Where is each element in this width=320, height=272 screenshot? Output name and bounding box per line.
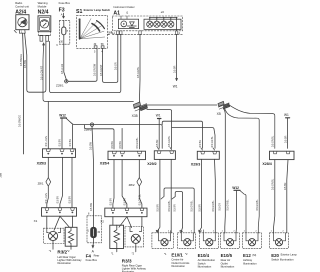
svg-text:E10/5: E10/5 xyxy=(221,253,233,258)
ground W1 right xyxy=(286,117,290,119)
svg-text:2B8: 2B8 xyxy=(0,172,3,177)
svg-text:Control unit: Control unit xyxy=(15,4,29,8)
instrument cluster bulb group e6 xyxy=(144,17,181,31)
wire X5 to X28/4 pin1 xyxy=(229,105,275,149)
svg-text:R3/3: R3/3 xyxy=(122,259,132,264)
svg-text:e6: e6 xyxy=(161,10,165,14)
feeder to X35/4 pins xyxy=(85,125,115,149)
svg-text:0.5 GR/BL: 0.5 GR/BL xyxy=(212,200,215,212)
svg-text:*2: *2 xyxy=(185,252,188,256)
svg-text:0.5 LI GN/RT: 0.5 LI GN/RT xyxy=(41,65,44,80)
svg-text:Fuse Box: Fuse Box xyxy=(59,1,71,5)
ground W1 arrow xyxy=(176,78,178,81)
svg-text:E20: E20 xyxy=(271,253,279,258)
wire X29/3 pin2 to E10/4 right xyxy=(214,159,217,233)
svg-text:2: 2 xyxy=(168,231,170,233)
wire X29/2 pin2 down to E10/1a right xyxy=(170,159,172,232)
svg-text:0.5 BR: 0.5 BR xyxy=(156,139,159,147)
wire X35 to X5 xyxy=(147,104,217,106)
arrow into E10/1b xyxy=(180,230,183,233)
connector R3/3 plug xyxy=(105,208,147,217)
arrow into N2/4 xyxy=(43,43,45,45)
svg-text:Exterior Lamp Switch: Exterior Lamp Switch xyxy=(84,8,111,12)
svg-text:Illumination: Illumination xyxy=(57,261,71,265)
wire X35/3 pin3 down xyxy=(71,157,73,207)
svg-text:0.5 BR: 0.5 BR xyxy=(69,196,72,204)
svg-text:A1: A1 xyxy=(113,10,120,16)
svg-text:8: 8 xyxy=(88,213,90,216)
svg-text:Z8/1: Z8/1 xyxy=(38,181,44,185)
connector X29/2 xyxy=(154,147,175,159)
wire colour labels rotated xyxy=(18,54,287,212)
ground W12 left xyxy=(61,118,72,149)
svg-text:1: 1 xyxy=(222,231,224,233)
svg-text:W1: W1 xyxy=(284,113,289,117)
svg-text:2: 2 xyxy=(282,231,284,233)
svg-text:0.5 GR/BL: 0.5 GR/BL xyxy=(190,200,193,212)
svg-text:X5: X5 xyxy=(217,112,221,116)
svg-text:2: 2 xyxy=(255,231,257,233)
svg-text:0.5 BR: 0.5 BR xyxy=(59,139,62,147)
ground W12 right xyxy=(234,190,246,233)
connector X35 xyxy=(133,102,147,111)
svg-text:0.5 BR: 0.5 BR xyxy=(284,135,287,143)
svg-text:0.5 BR: 0.5 BR xyxy=(111,141,114,149)
svg-text:2: 2 xyxy=(233,231,235,233)
wire A1 e6 ground to W1 xyxy=(176,34,178,78)
svg-text:0.5 SW: 0.5 SW xyxy=(90,202,93,211)
cigar lighter R3/2 xyxy=(44,216,77,249)
label A2/4 xyxy=(15,1,29,33)
svg-text:0.5 BR: 0.5 BR xyxy=(69,139,72,147)
svg-text:*1: *1 xyxy=(164,252,167,256)
svg-text:5: 5 xyxy=(94,51,96,54)
svg-text:E12: E12 xyxy=(243,253,251,258)
svg-text:0.5 GR/BL: 0.5 GR/BL xyxy=(271,178,274,190)
svg-text:E10/1: E10/1 xyxy=(171,252,183,257)
svg-text:*1: *1 xyxy=(111,252,114,256)
svg-text:2: 2 xyxy=(179,32,181,35)
svg-text:30: 30 xyxy=(60,41,63,44)
svg-text:0.5 BR: 0.5 BR xyxy=(173,65,176,73)
A1 box corner tick xyxy=(111,32,113,35)
svg-text:1: 1 xyxy=(201,231,203,233)
svg-text:X1: X1 xyxy=(34,219,38,223)
svg-text:0.5 GR/BL: 0.5 GR/BL xyxy=(136,137,139,149)
svg-text:0.5 GR/BL: 0.5 GR/BL xyxy=(211,136,214,148)
svg-text:i1: i1 xyxy=(126,11,129,15)
svg-text:Exterior Lamp: Exterior Lamp xyxy=(281,253,298,257)
svg-text:*2: *2 xyxy=(67,249,70,253)
connector sleeve Z8/2 xyxy=(137,178,142,187)
wire Z28/2 to fuse F4 xyxy=(92,126,93,216)
svg-text:A: A xyxy=(92,250,95,254)
wire X5 to E10/5 xyxy=(223,108,225,233)
wire X28/4 pin1 to E20 xyxy=(274,160,275,233)
svg-text:0.5 BR: 0.5 BR xyxy=(124,198,127,206)
svg-text:2: 2 xyxy=(191,231,193,233)
wire X29/3 pin1 to E10/4 xyxy=(199,159,202,232)
svg-text:A: A xyxy=(61,12,63,16)
arrow into E10/1a xyxy=(156,230,159,232)
svg-text:0.5 LI GN: 0.5 LI GN xyxy=(45,136,48,147)
svg-text:0.5 BR: 0.5 BR xyxy=(110,198,113,206)
svg-text:Illumination: Illumination xyxy=(243,261,257,265)
connector X35/3 xyxy=(43,149,76,158)
svg-text:X29/3: X29/3 xyxy=(191,162,200,166)
svg-text:0.5 GR/BL: 0.5 GR/BL xyxy=(272,135,275,147)
wire A2/4 pin2 to N2/4 xyxy=(25,33,46,92)
svg-text:0.5 BR: 0.5 BR xyxy=(199,140,202,148)
svg-text:Illumination: Illumination xyxy=(198,265,212,269)
svg-text:Illumination: Illumination xyxy=(171,264,185,268)
svg-text:W1: W1 xyxy=(156,114,161,118)
svg-text:1: 1 xyxy=(271,231,273,233)
svg-text:*1: *1 xyxy=(49,249,52,253)
svg-text:0.5 GR/RT: 0.5 GR/RT xyxy=(100,64,103,76)
svg-text:S1: S1 xyxy=(76,9,82,15)
wire X35/4 pin2 to R3/3 xyxy=(122,160,127,209)
label F3 xyxy=(56,1,70,47)
svg-text:0.5 LI GN: 0.5 LI GN xyxy=(61,63,64,74)
svg-text:a: a xyxy=(67,29,69,32)
svg-text:Z8/2: Z8/2 xyxy=(129,183,135,187)
solder joint Z29/1 xyxy=(65,80,68,83)
svg-text:X2: X2 xyxy=(100,219,104,223)
svg-text:0.5 GR: 0.5 GR xyxy=(114,62,117,70)
svg-text:0.5 GR/BL: 0.5 GR/BL xyxy=(137,66,140,78)
wire X35/4 pin1 to R3/3 xyxy=(113,160,114,209)
bulb E10/5 xyxy=(221,233,240,249)
wire branch to X29/3 pin2 xyxy=(172,128,215,149)
cigar lighter R3/3 xyxy=(110,217,144,252)
svg-text:2: 2 xyxy=(213,231,215,233)
label S1 xyxy=(76,8,113,54)
svg-text:W12: W12 xyxy=(59,113,66,117)
wire X5 to E12 xyxy=(225,109,259,233)
svg-text:Instrument Cluster: Instrument Cluster xyxy=(113,5,134,9)
control unit A2/4 xyxy=(14,15,29,34)
labels bulb row xyxy=(164,252,297,269)
svg-text:0.5 BR: 0.5 BR xyxy=(174,204,177,212)
svg-text:*2: *2 xyxy=(132,252,135,256)
svg-text:0.5 GR/BL: 0.5 GR/BL xyxy=(256,199,259,211)
svg-text:0.5 BR: 0.5 BR xyxy=(284,182,287,190)
connector X5 xyxy=(218,101,230,109)
svg-text:Z29/1: Z29/1 xyxy=(56,84,64,88)
bridge wire E10/1 pair outer xyxy=(161,188,194,233)
svg-text:1: 1 xyxy=(244,231,246,233)
svg-text:E10/4: E10/4 xyxy=(198,253,210,258)
wire S1 to A1 i1 xyxy=(103,34,118,82)
label N2/4 xyxy=(38,1,49,15)
bulb E20 xyxy=(270,233,289,249)
wire drop to X35/3 pin3 xyxy=(71,125,73,149)
svg-text:0.5 BR: 0.5 BR xyxy=(57,196,60,204)
svg-text:Rear: Rear xyxy=(94,254,100,258)
wire X29/2 pin1 down to E10/1a xyxy=(157,159,160,231)
svg-text:Illumination: Illumination xyxy=(221,265,235,269)
instrument cluster lamp unit i1 xyxy=(118,16,138,29)
label R3/2 xyxy=(49,249,82,265)
wire N2/4 signal down xyxy=(43,44,133,101)
svg-text:0.5 GR/SW: 0.5 GR/SW xyxy=(93,63,96,76)
connector X35/4 xyxy=(108,151,146,159)
connector R3/2 plug xyxy=(42,208,77,217)
bulb E10/1 b xyxy=(178,233,196,249)
svg-text:0.5 GR/BL: 0.5 GR/BL xyxy=(226,199,229,211)
wire branch to X35/3 pin1 xyxy=(47,102,49,149)
svg-text:0.5 LI GN: 0.5 LI GN xyxy=(45,193,48,204)
wire X35/4 pin3 to R3/3 xyxy=(139,160,142,209)
svg-text:W1: W1 xyxy=(173,84,178,88)
wire X35/3 pin1 to R3/2 xyxy=(47,157,49,207)
svg-text:X35: X35 xyxy=(132,114,138,118)
svg-text:Fuse Box: Fuse Box xyxy=(86,258,98,262)
svg-text:X35/3: X35/3 xyxy=(37,161,46,165)
svg-text:0.5 GR: 0.5 GR xyxy=(218,203,221,211)
svg-text:Switch Illumination: Switch Illumination xyxy=(271,257,294,261)
connector sleeve Z8/1 xyxy=(46,178,51,187)
svg-text:0.5 SW/GE: 0.5 SW/GE xyxy=(18,115,21,127)
svg-text:X28/4: X28/4 xyxy=(262,162,271,166)
bridge X29/2 to X29/3 xyxy=(162,121,202,148)
wire X35/3 pin2 down xyxy=(60,157,63,207)
wire A1 i1 pin2 to N2/4 bus xyxy=(50,34,121,92)
svg-text:0.5 GR/BL: 0.5 GR/BL xyxy=(139,194,142,206)
connector X29/3 xyxy=(197,148,219,159)
wire A2/4 pin1 dead end xyxy=(22,33,25,154)
exterior lamp switch S1 xyxy=(77,15,110,48)
arrow into E10/4 xyxy=(198,230,201,232)
bulb E10/1 a xyxy=(152,229,173,248)
wire F3 to solder joint Z29/1 xyxy=(64,44,67,81)
svg-text:0.5 BR: 0.5 BR xyxy=(157,204,160,212)
svg-text:0.5 GR/BL: 0.5 GR/BL xyxy=(168,135,171,147)
svg-text:30: 30 xyxy=(97,231,100,234)
svg-text:N2/4: N2/4 xyxy=(38,9,49,15)
svg-text:6: 6 xyxy=(56,44,58,47)
bridge wire E10/1 pair inner xyxy=(172,192,183,232)
svg-text:X35/4: X35/4 xyxy=(100,162,109,166)
connector X28/4 xyxy=(270,151,295,159)
svg-text:30: 30 xyxy=(94,43,97,46)
label R3/3 xyxy=(111,252,147,272)
svg-text:A2/4: A2/4 xyxy=(15,9,26,15)
svg-text:0.5 GR/BL: 0.5 GR/BL xyxy=(168,200,171,212)
svg-text:F4: F4 xyxy=(86,253,92,258)
svg-text:0.5 SW: 0.5 SW xyxy=(89,141,92,150)
solder joint Z28/2 xyxy=(90,123,93,126)
wire X35 right to X29/2 pin3 xyxy=(147,110,172,149)
svg-text:0.5 BR: 0.5 BR xyxy=(119,141,122,149)
svg-text:Module: Module xyxy=(38,4,47,8)
wire Z29/1 to S1 xyxy=(68,48,97,81)
fuse F3 xyxy=(59,13,69,44)
fuse F4 xyxy=(87,216,101,248)
svg-text:X29/2: X29/2 xyxy=(147,162,156,166)
ground W1 mid xyxy=(158,118,161,120)
bulb E10/4 xyxy=(200,230,219,249)
wire A1 pin 140 to X35/4 pin3 xyxy=(138,34,141,148)
svg-text:0.5 SW: 0.5 SW xyxy=(24,59,27,68)
instrument cluster A1 xyxy=(112,16,182,34)
wire drop X35/4 pin2 xyxy=(121,128,123,149)
svg-text:W12: W12 xyxy=(232,186,239,190)
ground bus from W12 xyxy=(72,123,163,148)
wire X28/4 pin2 to E20 right xyxy=(287,160,288,233)
svg-text:58: 58 xyxy=(101,43,104,46)
bulb E12 xyxy=(243,233,262,249)
svg-text:(M): (M) xyxy=(252,253,256,257)
svg-text:R3/2: R3/2 xyxy=(57,250,67,255)
label A1 xyxy=(113,5,180,35)
svg-text:f1: f1 xyxy=(87,229,90,232)
svg-text:0.5 SW/GE: 0.5 SW/GE xyxy=(20,54,23,66)
warning module N2/4 xyxy=(38,16,51,41)
svg-text:0.5 BR: 0.5 BR xyxy=(199,204,202,212)
